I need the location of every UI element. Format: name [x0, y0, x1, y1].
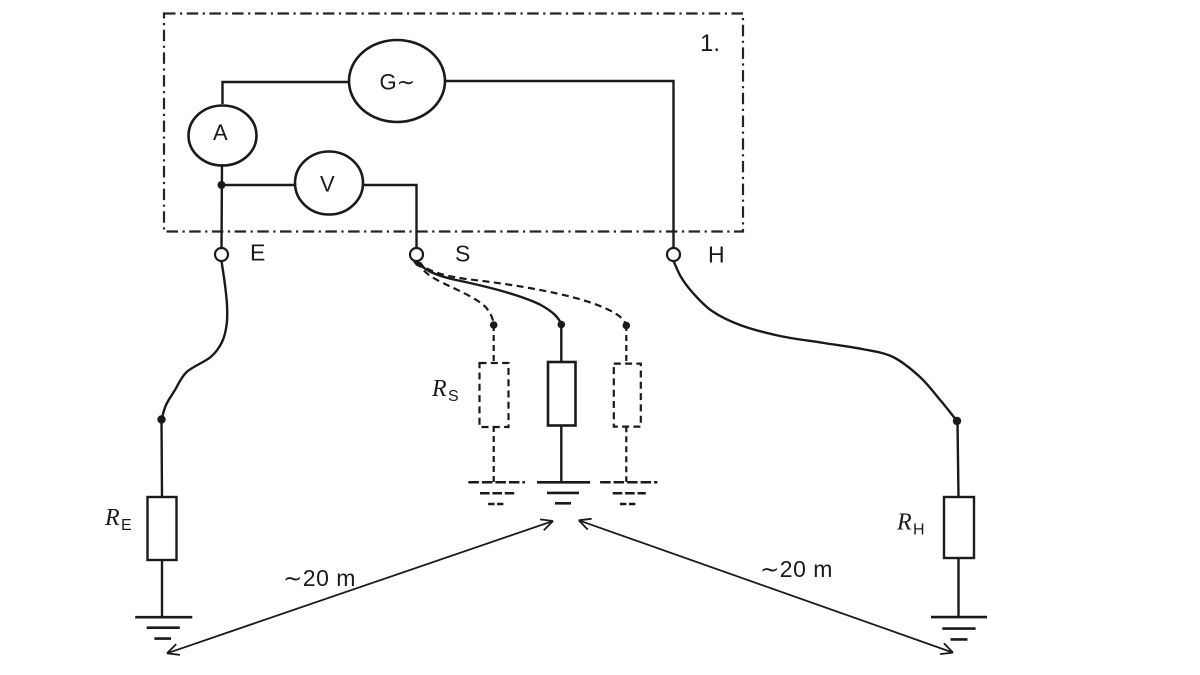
- svg-text:R: R: [431, 376, 447, 402]
- svg-text:R: R: [104, 505, 120, 531]
- svg-text:E: E: [250, 240, 265, 266]
- wire RS-middle to ground: [560, 426, 562, 483]
- node junction at A bottom: [218, 181, 226, 189]
- node S middle: [558, 321, 566, 329]
- node on H lead: [953, 417, 961, 425]
- wire S fan right (dashed): [418, 262, 627, 326]
- ground (E electrode): [135, 616, 192, 619]
- wire junction to V-left: [222, 184, 296, 186]
- wire RH to ground: [957, 558, 959, 617]
- svg-text:S: S: [448, 388, 459, 405]
- wire node to RS-left (dashed): [493, 325, 495, 363]
- wire RS-right to ground (dashed): [625, 426, 627, 482]
- instrument boundary box (dash-dot): [164, 14, 743, 232]
- S terminal wire bundle wedge: [413, 262, 427, 270]
- node on E lead: [157, 415, 165, 423]
- wire RS-left to ground (dashed): [493, 426, 495, 482]
- ground S-left (dashed): [468, 481, 525, 484]
- wire RE to ground: [161, 560, 163, 617]
- wire node to RH: [958, 422, 959, 497]
- svg-text:∼20 m: ∼20 m: [760, 556, 833, 582]
- node S left: [490, 321, 498, 329]
- svg-text:E: E: [121, 517, 132, 534]
- svg-text:S: S: [455, 241, 470, 267]
- resistor RS left (dashed): [480, 363, 509, 427]
- svg-text:V: V: [320, 172, 335, 197]
- node S right: [623, 322, 631, 330]
- resistor RS right (dashed): [614, 364, 641, 427]
- ground (H electrode): [931, 616, 987, 619]
- svg-text:1.: 1.: [700, 30, 720, 57]
- svg-text:H: H: [913, 522, 925, 539]
- svg-text:G∼: G∼: [380, 70, 416, 95]
- wire E lead (curved): [162, 261, 228, 420]
- distance arrow left (~20 m): [167, 521, 553, 653]
- wire S fan middle (solid): [418, 262, 562, 325]
- wire A-bottom to E terminal: [220, 164, 223, 248]
- wire node to RS-right (dashed): [625, 325, 627, 364]
- resistor RS middle: [548, 362, 576, 426]
- wire S fan left (dashed): [417, 262, 494, 326]
- resistor RE: [148, 497, 177, 560]
- wire G-right to H terminal: [445, 81, 674, 248]
- wire node to RS-middle: [560, 325, 562, 362]
- ammeter A: [189, 106, 257, 166]
- resistor RH: [944, 497, 974, 558]
- terminal E: [215, 248, 228, 261]
- generator G~: [349, 40, 445, 122]
- wire V-right to S terminal: [363, 185, 417, 248]
- terminal H: [667, 248, 680, 261]
- svg-text:∼20 m: ∼20 m: [283, 565, 356, 591]
- ground S-right (dashed): [600, 481, 657, 484]
- svg-text:H: H: [708, 242, 725, 268]
- svg-text:R: R: [896, 510, 912, 536]
- wire A-top to G-left: [223, 82, 350, 104]
- terminal S: [410, 248, 423, 261]
- wire node to RE: [160, 420, 163, 497]
- wire H lead (curved): [674, 261, 958, 421]
- ground S-middle: [537, 481, 590, 484]
- distance arrow right (~20 m): [579, 520, 953, 652]
- svg-text:A: A: [213, 120, 228, 145]
- voltmeter V: [295, 152, 363, 215]
